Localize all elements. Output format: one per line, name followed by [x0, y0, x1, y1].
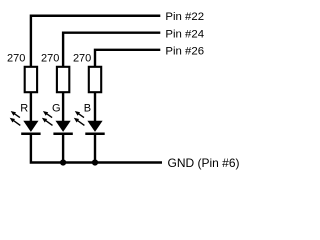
- wire LED G cathode to GND rail: [62, 134, 64, 164]
- wire R3 to LED B anode: [94, 93, 96, 122]
- resistor B (270) body: [89, 67, 101, 92]
- svg-text:Pin #22: Pin #22: [165, 11, 204, 23]
- junction dot branch2/GND: [60, 159, 66, 165]
- LED R emission arrows: [10, 111, 21, 125]
- svg-text:G: G: [52, 103, 61, 115]
- LED G cathode bar: [53, 133, 72, 136]
- resistor G (270) body: [57, 67, 69, 92]
- wire R1 to LED R anode: [30, 93, 32, 122]
- wire LED B cathode to GND rail: [94, 134, 96, 164]
- resistor R (270) body: [25, 67, 37, 92]
- wire LED R cathode to GND rail and GND rail: [31, 134, 162, 163]
- wire branch1 top to Pin #22: [31, 16, 160, 67]
- LED R triangle: [23, 121, 38, 132]
- svg-text:R: R: [20, 103, 28, 115]
- LED R cathode bar: [21, 133, 40, 136]
- svg-text:270: 270: [7, 53, 25, 65]
- LED B emission arrows: [74, 111, 85, 125]
- LED B triangle: [87, 121, 102, 132]
- svg-text:Pin #26: Pin #26: [165, 45, 204, 57]
- junction dot branch3/GND: [92, 159, 98, 165]
- svg-text:GND (Pin #6): GND (Pin #6): [168, 156, 240, 170]
- svg-text:270: 270: [41, 53, 59, 65]
- svg-text:270: 270: [73, 53, 91, 65]
- wire R2 to LED G anode: [62, 93, 64, 122]
- wire branch2 top to Pin #24: [63, 33, 160, 67]
- LED G emission arrows: [42, 111, 53, 125]
- wire branch3 top to Pin #26: [95, 50, 160, 67]
- LED G triangle: [56, 121, 71, 132]
- svg-text:B: B: [84, 103, 91, 115]
- svg-text:Pin #24: Pin #24: [165, 28, 204, 40]
- LED B cathode bar: [85, 133, 104, 136]
